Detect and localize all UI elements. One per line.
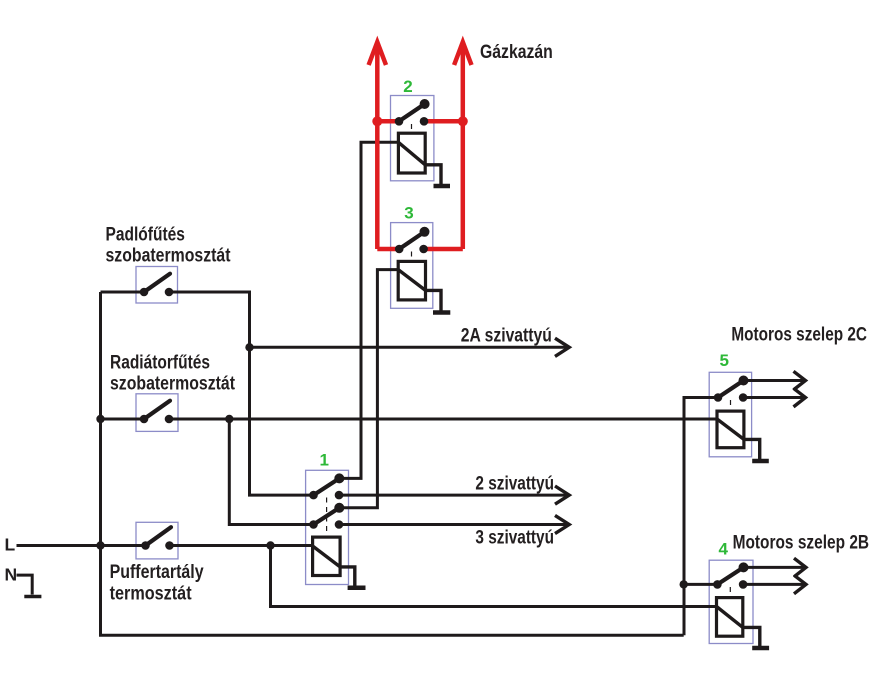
svg-text:2A szivattyú: 2A szivattyú	[461, 326, 552, 347]
svg-text:3 szivattyú: 3 szivattyú	[475, 527, 554, 548]
svg-text:termosztát: termosztát	[110, 583, 193, 604]
svg-text:3: 3	[404, 204, 413, 223]
svg-text:5: 5	[720, 351, 729, 370]
svg-text:szobatermosztát: szobatermosztát	[106, 245, 232, 266]
svg-text:Motoros szelep 2C: Motoros szelep 2C	[731, 325, 867, 346]
svg-text:Motoros szelep 2B: Motoros szelep 2B	[733, 533, 870, 554]
svg-text:1: 1	[320, 450, 329, 469]
svg-text:Padlófűtés: Padlófűtés	[106, 224, 185, 245]
svg-text:4: 4	[719, 540, 729, 559]
svg-text:2 szivattyú: 2 szivattyú	[475, 474, 554, 495]
svg-text:L: L	[5, 535, 16, 555]
svg-text:Radiátorfűtés: Radiátorfűtés	[110, 352, 210, 373]
svg-text:2: 2	[403, 77, 412, 96]
svg-text:szobatermosztát: szobatermosztát	[110, 373, 236, 394]
svg-text:N: N	[5, 565, 18, 585]
svg-text:Gázkazán: Gázkazán	[480, 42, 553, 63]
svg-text:Puffertartály: Puffertartály	[110, 562, 204, 583]
